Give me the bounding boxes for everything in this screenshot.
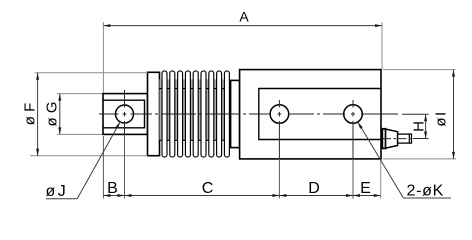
ext line hole K1 center <box>278 159 280 199</box>
dim F extension top <box>35 72 148 74</box>
svg-text:H: H <box>411 121 428 132</box>
svg-text:2-øK: 2-øK <box>407 183 444 200</box>
bellows convolutions <box>162 71 229 157</box>
leader øJ underline <box>46 198 77 200</box>
cable gland body <box>386 129 398 148</box>
hole K2 vertical centerline <box>352 100 354 159</box>
dim I extension top <box>383 69 456 71</box>
ext line block right edge <box>380 160 382 199</box>
leader 2-øK arrowhead <box>358 122 363 129</box>
cable bushing <box>398 134 412 143</box>
svg-text:ø G: ø G <box>44 102 61 127</box>
dim G line <box>59 94 61 135</box>
ext line hole K2 center <box>352 159 354 199</box>
hole J circle <box>116 105 134 123</box>
bellows valley line top <box>160 88 231 90</box>
svg-text:D: D <box>308 180 320 197</box>
dim A extension right <box>381 22 383 69</box>
dim line B C D E <box>103 195 380 197</box>
cable bushing cap line <box>408 134 410 143</box>
svg-text:C: C <box>202 180 214 197</box>
hole K2 circle <box>344 105 363 124</box>
hole K1 vertical centerline <box>278 100 280 159</box>
svg-text:ø F: ø F <box>22 103 39 126</box>
dim F line <box>37 73 39 156</box>
left mounting block <box>103 94 148 135</box>
leader 2-øK line <box>358 122 404 198</box>
dim F extension bottom <box>30 155 148 157</box>
right mounting block (body) <box>240 70 381 159</box>
ext line block left bottom <box>102 136 104 199</box>
bellows valley line bottom <box>160 139 231 141</box>
bellows left collar <box>148 72 160 155</box>
dim A line <box>103 25 382 27</box>
leader 2-øK underline <box>403 197 451 199</box>
dim A extension left <box>102 22 104 93</box>
left block slot <box>103 100 145 128</box>
svg-text:øJ: øJ <box>46 183 69 200</box>
right block pocket <box>259 89 381 140</box>
dim I extension bottom <box>383 158 456 160</box>
bellows shaded gaps <box>160 79 231 140</box>
centerline main <box>99 113 398 115</box>
dim G extension top <box>57 93 102 95</box>
hole J vertical centerline <box>124 90 126 134</box>
dim H line <box>425 114 427 138</box>
dim H extension bottom <box>413 138 429 140</box>
dim H extension top <box>402 113 429 115</box>
hole K1 circle <box>270 105 289 124</box>
leader øJ arrowhead <box>115 122 120 129</box>
cable gland flange <box>382 129 385 149</box>
svg-text:B: B <box>107 180 118 197</box>
svg-text:øI: øI <box>433 110 450 126</box>
dim G extension bottom <box>57 133 102 135</box>
ext line hole J center <box>124 134 126 198</box>
leader øJ line <box>77 122 120 199</box>
dim I line <box>453 70 455 159</box>
bellows right collar <box>231 80 240 147</box>
connector centerline <box>383 138 414 140</box>
svg-text:A: A <box>239 9 249 25</box>
svg-text:E: E <box>360 180 371 197</box>
